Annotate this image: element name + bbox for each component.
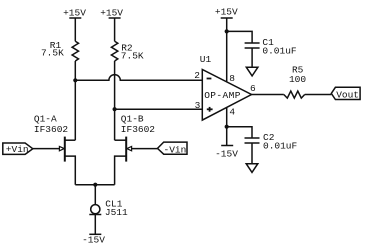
node junction pin8 / C1	[225, 29, 229, 33]
wire to CL1	[94, 185, 96, 205]
Q1-A gate wire	[33, 148, 60, 150]
ground (C2)	[246, 164, 258, 173]
Q1-B gate arrow	[127, 146, 132, 150]
svg-text:+15V: +15V	[63, 8, 86, 19]
svg-text:+Vin: +Vin	[6, 144, 29, 155]
power +15V rail left (R1 top)	[69, 18, 81, 41]
svg-text:0.01uF: 0.01uF	[262, 46, 297, 57]
svg-text:7.5K: 7.5K	[121, 50, 144, 61]
svg-text:-Vin: -Vin	[164, 144, 187, 155]
svg-text:Q1-B: Q1-B	[121, 114, 144, 125]
wire CL1 to -15V	[94, 215, 96, 235]
svg-text:J511: J511	[105, 207, 128, 218]
svg-text:IF3602: IF3602	[121, 124, 156, 135]
svg-text:+15V: +15V	[100, 8, 123, 19]
output flag Vout	[331, 87, 360, 99]
resistor R2	[111, 41, 117, 61]
node junction R2 / pin3	[113, 107, 117, 111]
power +15V rail op-amp (pin 8)	[221, 18, 233, 82]
resistor R1	[72, 41, 78, 61]
svg-text:4: 4	[229, 107, 235, 118]
wire op-amp pin 4 to -15V	[226, 108, 228, 146]
Q1-A drain stub	[65, 139, 76, 141]
Q1-A source stub	[65, 156, 76, 185]
power -15V bar (op-amp)	[221, 145, 233, 147]
node junction sources / CL1	[93, 183, 97, 187]
transistor Q1-B channel	[125, 137, 127, 162]
wire inverting input (pin 2) with hop over R2 rail	[75, 75, 202, 81]
wire C2 to ground	[251, 143, 253, 164]
input flag -Vin	[158, 142, 188, 154]
Q1-A gate arrow	[59, 146, 64, 150]
svg-text:3: 3	[195, 100, 201, 111]
wire C1 to ground	[251, 48, 253, 67]
svg-text:0.01uF: 0.01uF	[263, 140, 298, 151]
svg-text:8: 8	[229, 73, 235, 84]
svg-text:7.5K: 7.5K	[41, 48, 64, 59]
wire non-inverting input (pin 3)	[115, 108, 203, 110]
op-amp minus input marker	[207, 78, 212, 80]
input flag +Vin	[3, 143, 33, 154]
node junction R1 / pin2	[73, 78, 77, 82]
capacitor C2 plates	[245, 137, 260, 139]
Q1-B source stub	[115, 156, 127, 185]
wire op-amp output pin 6	[252, 94, 284, 96]
op-amp U1 triangle	[202, 70, 251, 121]
wire R5 to Vout	[305, 94, 332, 96]
svg-text:Q1-A: Q1-A	[34, 114, 57, 125]
svg-text:-15V: -15V	[82, 234, 105, 245]
capacitor C2 leads	[227, 127, 252, 138]
svg-text:6: 6	[250, 83, 256, 94]
capacitor C1 plates	[245, 42, 260, 44]
svg-text:IF3602: IF3602	[34, 124, 69, 135]
Q1-B gate wire	[131, 148, 157, 150]
transistor Q1-A channel	[64, 137, 66, 162]
current regulator diode CL1	[91, 205, 100, 214]
wire R2 bottom to Q1-B drain	[114, 61, 116, 140]
node junction pin4 / C2	[225, 125, 229, 129]
Q1-B drain stub	[115, 139, 127, 141]
wire common sources	[75, 184, 114, 186]
svg-text:+15V: +15V	[215, 7, 238, 18]
capacitor C1 leads	[227, 31, 252, 43]
power +15V rail mid (R2 top)	[109, 18, 121, 41]
power -15V bar (bottom)	[89, 233, 101, 235]
svg-text:U1: U1	[200, 54, 212, 65]
ground (C1)	[246, 67, 258, 76]
svg-text:Vout: Vout	[336, 89, 359, 100]
svg-text:2: 2	[194, 70, 200, 81]
svg-text:-15V: -15V	[215, 149, 238, 160]
op-amp plus input marker	[207, 108, 213, 110]
resistor R5	[284, 91, 305, 98]
svg-text:OP-AMP: OP-AMP	[204, 90, 240, 101]
svg-text:100: 100	[289, 74, 306, 85]
wire R1 bottom to Q1-A drain	[74, 61, 76, 140]
